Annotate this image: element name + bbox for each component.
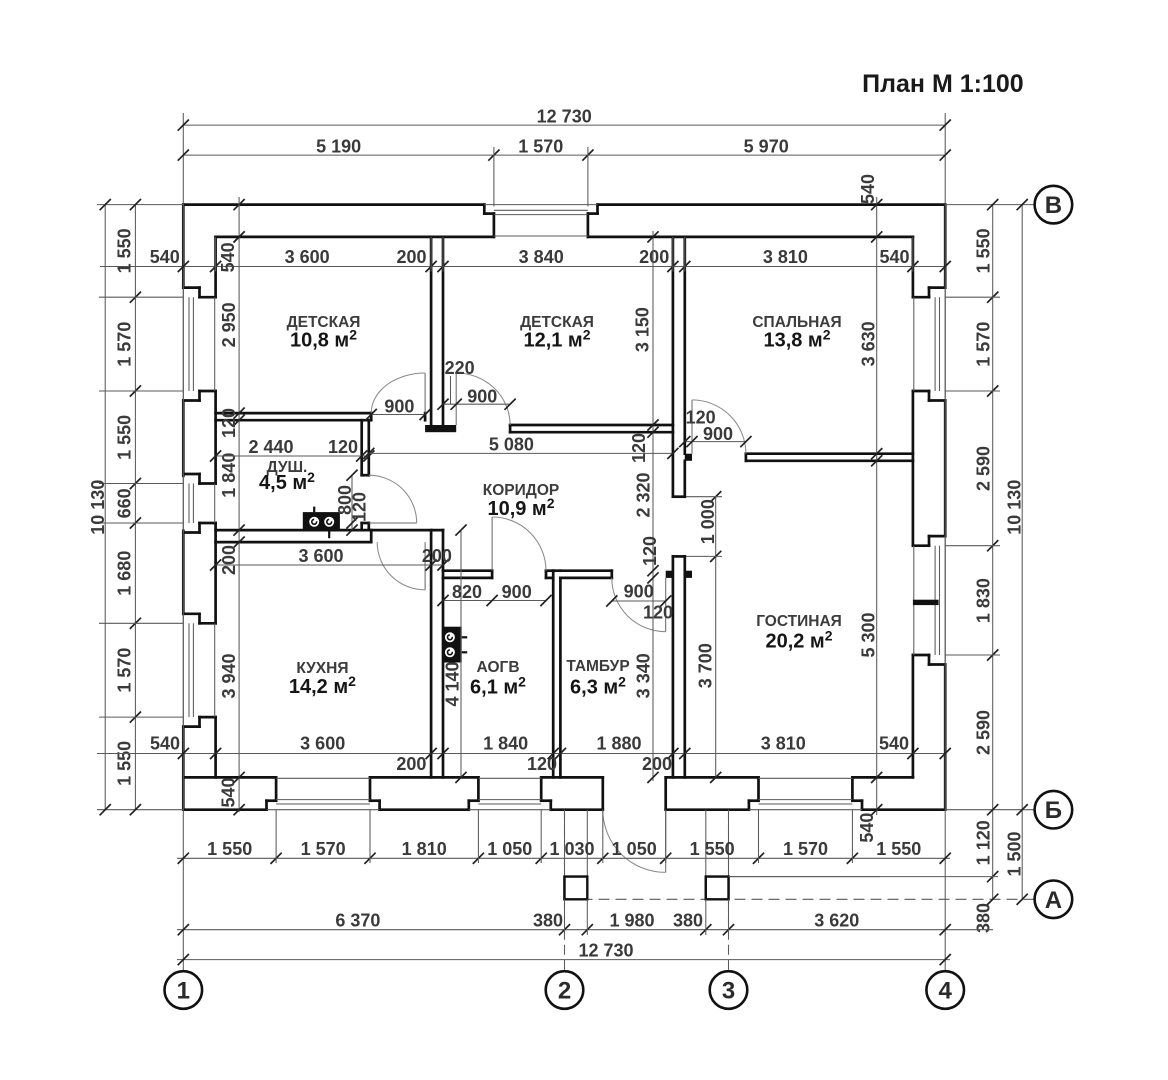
svg-text:900: 900 <box>384 396 414 416</box>
fixture: boiler (AOGV) <box>443 627 468 663</box>
svg-text:3 600: 3 600 <box>298 546 343 566</box>
pier: children wall end cap <box>425 425 456 432</box>
axis bubble 1 <box>165 971 203 1009</box>
svg-text:1 550: 1 550 <box>974 228 994 273</box>
door: bedroom (900) <box>692 400 746 454</box>
svg-text:120: 120 <box>640 536 660 566</box>
dim: children room 2 depth 3150 / corridor 2320 / vestibule 3340 <box>629 231 660 783</box>
svg-text:820: 820 <box>452 582 482 602</box>
svg-text:380: 380 <box>533 910 563 930</box>
svg-text:1 570: 1 570 <box>114 648 134 693</box>
svg-text:1 050: 1 050 <box>612 839 657 859</box>
dim: right window chain + 1120/380 <box>945 199 1000 933</box>
svg-text:1 570: 1 570 <box>114 322 134 367</box>
svg-text:13,8 м2: 13,8 м2 <box>763 326 830 351</box>
window: living room, bottom wall <box>749 778 862 809</box>
dim: overall height 10 130 + 1500 (right) <box>1004 199 1028 905</box>
svg-text:540: 540 <box>879 734 909 754</box>
door: children room 2 (900) <box>456 373 510 425</box>
door: kitchen (900) <box>377 542 425 590</box>
pier: bedroom door jamb (120) <box>685 454 692 461</box>
pier: vestibule door jamb (120) <box>666 571 673 578</box>
svg-text:4: 4 <box>939 978 953 1005</box>
svg-text:2 590: 2 590 <box>974 710 994 755</box>
room label: children room 1 <box>287 314 361 352</box>
svg-text:1 570: 1 570 <box>518 136 563 156</box>
dim: top room widths 540/3600/200/3840/200/3810/540 <box>100 237 951 272</box>
axis bubble В <box>1035 186 1073 224</box>
dim: boiler room door 820/900 <box>437 582 551 606</box>
window: kitchen, left wall <box>183 614 214 727</box>
svg-text:1 000: 1 000 <box>698 499 718 544</box>
interior wall: bedroom west + corridor stub (200) <box>673 237 685 497</box>
svg-text:1 550: 1 550 <box>114 415 134 460</box>
dim: overall width 12 730 (bottom) <box>177 940 951 965</box>
porch pillar: right (380x380, axis 3) <box>706 810 729 900</box>
dim: porch slab level extension <box>729 876 999 878</box>
svg-text:540: 540 <box>879 247 909 267</box>
dim: left interior heights 2950/120/1840/200/3940/540 <box>219 197 245 815</box>
svg-text:1 550: 1 550 <box>207 839 252 859</box>
svg-text:10,9 м2: 10,9 м2 <box>487 495 554 520</box>
window: kitchen, bottom wall <box>267 778 380 809</box>
svg-text:6,1 м2: 6,1 м2 <box>470 673 526 698</box>
axis bubble 2 <box>546 971 584 1009</box>
svg-text:5 080: 5 080 <box>489 435 534 455</box>
svg-text:2 590: 2 590 <box>974 446 994 491</box>
room label: boiler room <box>470 659 526 699</box>
room label: kitchen <box>289 660 356 698</box>
svg-text:3 700: 3 700 <box>696 643 716 688</box>
interior wall: kitchen north (200) <box>216 530 443 542</box>
svg-text:20,2 м2: 20,2 м2 <box>765 627 832 652</box>
axis line Б <box>97 809 1035 811</box>
svg-text:1 830: 1 830 <box>974 578 994 623</box>
room label: bedroom <box>752 314 841 352</box>
dim: children room 1 door 900 <box>366 396 431 420</box>
svg-text:900: 900 <box>624 582 654 602</box>
room label: living room <box>756 613 842 653</box>
svg-text:1: 1 <box>177 978 190 1005</box>
svg-text:3 810: 3 810 <box>761 734 806 754</box>
svg-text:14,2 м2: 14,2 м2 <box>289 673 356 698</box>
svg-text:10 130: 10 130 <box>88 480 108 535</box>
dim: shower width 2440/120 <box>210 437 374 461</box>
svg-text:1 570: 1 570 <box>301 839 346 859</box>
room label: shower <box>259 459 315 494</box>
svg-text:2 440: 2 440 <box>248 437 293 457</box>
svg-text:4,5 м2: 4,5 м2 <box>259 469 315 494</box>
dim: overall height 10 130 (left) <box>88 199 111 815</box>
dim: left window chain <box>99 199 183 815</box>
svg-text:3 600: 3 600 <box>300 734 345 754</box>
svg-text:1 550: 1 550 <box>114 741 134 786</box>
interior wall: children room 1 south / shower north (120) <box>216 413 426 420</box>
svg-text:200: 200 <box>396 754 426 774</box>
room label: children room 2 <box>520 314 594 352</box>
svg-text:540: 540 <box>857 813 877 843</box>
dim: boiler room depth 4140 <box>443 525 467 784</box>
axis line А (dashed) <box>565 898 1035 900</box>
svg-text:10,8 м2: 10,8 м2 <box>290 326 357 351</box>
svg-text:200: 200 <box>219 545 239 575</box>
dim: living room opening 1000 / 3700 <box>686 491 722 783</box>
svg-text:900: 900 <box>467 386 497 406</box>
door: entrance (1050) <box>603 810 666 873</box>
pier: shower east lower (120) <box>362 523 369 530</box>
door: shower (800) <box>369 475 417 523</box>
svg-text:3 940: 3 940 <box>219 653 239 698</box>
axis line 2 (dashed) <box>564 810 566 972</box>
svg-text:АОГВ: АОГВ <box>476 659 519 676</box>
dim: corridor width 5080 <box>363 435 678 459</box>
axis bubble 4 <box>926 971 964 1009</box>
dim: bottom room widths 540/3600/200/1840/120/1880/200/3810/540 <box>97 734 951 774</box>
porch pillar: left outline (over axis) <box>565 877 588 900</box>
svg-text:120: 120 <box>629 433 649 463</box>
svg-text:1 570: 1 570 <box>783 839 828 859</box>
window transom: living room window centre pier <box>913 600 939 605</box>
porch pillar: left (380x380, axis 2) <box>565 810 588 900</box>
interior wall: between children rooms (200) <box>431 237 443 425</box>
interior wall: bedroom south / living room north (120) <box>746 454 913 461</box>
axis bubble 3 <box>710 971 748 1009</box>
svg-text:1 030: 1 030 <box>549 839 594 859</box>
svg-text:4 140: 4 140 <box>443 661 463 706</box>
svg-text:540: 540 <box>150 734 180 754</box>
title: План М 1:100 <box>862 70 1024 98</box>
door: children room 1 (900) <box>371 373 425 413</box>
svg-text:120: 120 <box>643 602 673 622</box>
svg-text:3 150: 3 150 <box>633 307 653 352</box>
dim: top chain 5190/1570/5970 <box>178 136 951 206</box>
svg-text:200: 200 <box>642 754 672 774</box>
door: vestibule (900) <box>612 578 666 632</box>
interior wall: boiler room north (120) <box>443 571 553 578</box>
room label: corridor <box>483 482 559 520</box>
fixture: stove/sink in shower room <box>303 507 340 539</box>
svg-text:900: 900 <box>502 582 532 602</box>
svg-text:3 340: 3 340 <box>634 653 654 698</box>
svg-text:3 810: 3 810 <box>763 247 808 267</box>
svg-text:12 730: 12 730 <box>578 940 633 960</box>
axis line В <box>97 204 1035 206</box>
svg-text:10 130: 10 130 <box>1004 480 1024 535</box>
svg-text:12,1 м2: 12,1 м2 <box>523 326 590 351</box>
dim: vestibule door 900/120 <box>606 582 673 623</box>
interior wall: kitchen east / boiler west (200) <box>431 530 443 777</box>
svg-text:2 950: 2 950 <box>219 302 239 347</box>
svg-text:540: 540 <box>219 777 239 807</box>
exterior wall: top (axis В) <box>183 205 945 237</box>
window: living room, right wall <box>914 536 945 664</box>
dim: bottom chain 6370/380/1980/380/3620 <box>177 899 993 935</box>
svg-text:3 620: 3 620 <box>814 910 859 930</box>
svg-text:5 300: 5 300 <box>859 612 879 657</box>
svg-text:380: 380 <box>673 910 703 930</box>
exterior wall: right (axis 4) <box>913 205 945 810</box>
svg-text:540: 540 <box>858 174 878 204</box>
svg-text:КУХНЯ: КУХНЯ <box>296 660 348 677</box>
svg-text:В: В <box>1045 192 1062 219</box>
svg-text:ТАМБУР: ТАМБУР <box>566 658 629 675</box>
svg-text:3: 3 <box>722 978 735 1005</box>
dim: shower door 800/120 <box>335 470 370 536</box>
svg-text:120: 120 <box>527 754 557 774</box>
svg-text:1 680: 1 680 <box>114 551 134 596</box>
svg-text:2 320: 2 320 <box>634 472 654 517</box>
window: children room 1, left wall <box>183 288 214 401</box>
exterior wall: bottom (axis Б) <box>183 777 945 809</box>
svg-text:540: 540 <box>150 247 180 267</box>
svg-text:1 570: 1 570 <box>974 322 994 367</box>
dim: children room 2 door 220/900 <box>437 358 515 410</box>
svg-text:1 840: 1 840 <box>483 734 528 754</box>
svg-text:660: 660 <box>114 488 134 518</box>
interior wall: children room 2 south (120) <box>510 425 673 432</box>
svg-text:3 840: 3 840 <box>519 247 564 267</box>
interior wall: shower east upper (120) <box>362 420 369 475</box>
svg-text:220: 220 <box>445 358 475 378</box>
svg-text:200: 200 <box>639 247 669 267</box>
svg-text:200: 200 <box>422 546 452 566</box>
dim: kitchen width 3600/200 (top) <box>210 546 452 570</box>
pier: living room west pilaster (120) <box>685 571 692 578</box>
dim: overall width 12 730 (top) <box>178 106 951 130</box>
room label: vestibule <box>566 658 629 699</box>
svg-text:5 970: 5 970 <box>744 136 789 156</box>
svg-text:1 050: 1 050 <box>487 839 532 859</box>
svg-text:5 190: 5 190 <box>316 136 361 156</box>
interior wall: vestibule east / living room west (200) <box>673 556 685 777</box>
svg-text:3 630: 3 630 <box>858 321 878 366</box>
svg-text:1 980: 1 980 <box>609 910 654 930</box>
svg-text:1 500: 1 500 <box>1004 831 1024 876</box>
window: children room 2, top wall (1570) <box>484 205 597 236</box>
svg-text:380: 380 <box>974 903 994 933</box>
porch slab edge line <box>729 876 881 878</box>
dim: top wall thickness 540 (left) <box>218 199 245 272</box>
axis line 3 (dashed) <box>728 810 730 972</box>
axis line 1 <box>182 113 184 971</box>
svg-text:1 120: 1 120 <box>974 820 994 865</box>
porch pillar: right outline (over axis) <box>706 877 729 900</box>
exterior wall: left (axis 1) <box>183 205 215 810</box>
svg-text:12 730: 12 730 <box>537 106 592 126</box>
svg-text:540: 540 <box>218 242 238 272</box>
svg-text:200: 200 <box>396 247 426 267</box>
svg-text:1 840: 1 840 <box>219 453 239 498</box>
interior wall: vestibule north (120) <box>560 571 611 578</box>
svg-text:1 550: 1 550 <box>114 228 134 273</box>
svg-text:1 810: 1 810 <box>402 839 447 859</box>
svg-text:900: 900 <box>703 424 733 444</box>
axis bubble А <box>1035 881 1073 919</box>
window: boiler room, bottom wall <box>469 778 551 809</box>
axis bubble Б <box>1035 791 1073 829</box>
svg-text:Б: Б <box>1045 797 1062 824</box>
dim: bedroom door 120/900 <box>679 408 751 448</box>
svg-text:А: А <box>1045 887 1062 914</box>
svg-text:6 370: 6 370 <box>335 910 380 930</box>
window: bedroom, right wall <box>914 288 945 401</box>
svg-text:План М 1:100: План М 1:100 <box>862 70 1024 98</box>
svg-text:120: 120 <box>350 492 370 522</box>
svg-text:2: 2 <box>558 978 571 1005</box>
dim: right interior heights 540/3630/5300/540 <box>857 174 882 843</box>
svg-text:1 550: 1 550 <box>690 839 735 859</box>
dim: bottom opening chain <box>177 810 951 864</box>
window: shower, left wall <box>183 474 214 533</box>
svg-text:120: 120 <box>219 408 239 438</box>
svg-text:120: 120 <box>328 437 358 457</box>
interior wall: vestibule west (120) <box>553 571 560 778</box>
svg-text:6,3 м2: 6,3 м2 <box>570 673 626 698</box>
svg-text:3 600: 3 600 <box>285 247 330 267</box>
svg-text:1 880: 1 880 <box>596 734 641 754</box>
svg-text:1 550: 1 550 <box>876 839 921 859</box>
door: boiler room (900) <box>492 517 546 571</box>
axis line 4 <box>944 113 946 971</box>
